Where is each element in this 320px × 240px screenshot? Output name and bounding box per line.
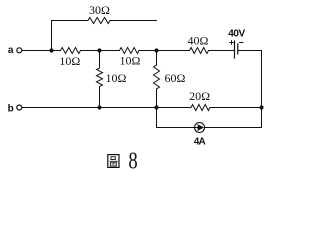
svg-text:10Ω: 10Ω — [120, 54, 141, 68]
battery V1 short plate — [237, 44, 239, 54]
svg-text:20Ω: 20Ω — [189, 89, 210, 103]
wire current source to corner — [204, 127, 261, 129]
svg-text:30Ω: 30Ω — [89, 3, 110, 17]
wire left vertical — [51, 21, 53, 51]
terminal b circle — [17, 105, 22, 110]
svg-text:a: a — [8, 45, 14, 56]
junction node a-left — [49, 48, 53, 52]
resistor R10 left zigzag — [61, 48, 81, 54]
resistor R30 zigzag — [88, 18, 110, 24]
resistor R10 vertical zigzag — [97, 68, 103, 87]
svg-text:40Ω: 40Ω — [188, 34, 209, 48]
wire top rail right — [110, 20, 157, 22]
wire right edge vertical — [261, 51, 263, 128]
svg-text:4A: 4A — [194, 137, 206, 148]
svg-text:40V: 40V — [228, 28, 245, 39]
svg-text:b: b — [8, 104, 14, 115]
wire node3 to R40 — [139, 50, 190, 52]
current source arrow — [195, 127, 199, 129]
wire bottom branch vertical — [156, 108, 158, 128]
current source arrowhead — [198, 124, 204, 131]
wire node2 middle — [81, 50, 120, 52]
wire a to node1 — [22, 50, 61, 52]
junction node right-top — [154, 48, 158, 52]
wire R40 to battery — [209, 50, 235, 52]
resistor R60 zigzag — [154, 65, 160, 89]
svg-text:8: 8 — [128, 147, 137, 174]
junction node mid-top — [97, 48, 101, 52]
svg-text:60Ω: 60Ω — [164, 71, 185, 85]
battery V1 long plate — [234, 41, 236, 58]
wire top rail left — [52, 20, 89, 22]
caption character tu (figure) — [108, 155, 119, 168]
terminal a circle — [17, 48, 22, 53]
junction node mid-bottom — [97, 105, 101, 109]
battery minus sign — [240, 42, 243, 44]
wire battery to right corner — [238, 50, 262, 52]
wire R10 vertical top lead — [99, 51, 101, 69]
current source I1 circle — [195, 123, 205, 133]
battery plus sign — [230, 41, 233, 44]
wire bottom to current source — [157, 127, 195, 129]
svg-text:10Ω: 10Ω — [59, 54, 80, 68]
resistor R40 zigzag — [190, 48, 209, 54]
resistor R10 middle zigzag — [120, 48, 140, 54]
junction node b-right — [154, 105, 158, 109]
wire R10 vertical bottom lead — [99, 87, 101, 108]
resistor R20 zigzag — [191, 105, 210, 111]
junction node right-edge — [259, 105, 263, 109]
svg-text:10Ω: 10Ω — [105, 71, 126, 85]
wire R60 top lead — [156, 51, 158, 66]
wire b rail — [22, 107, 191, 109]
wire R60 bottom lead — [156, 89, 158, 108]
wire R20 to right edge — [210, 107, 262, 109]
